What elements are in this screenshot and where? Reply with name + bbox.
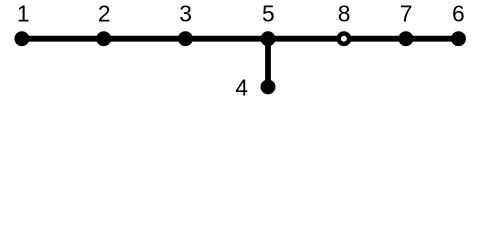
wire edge 5-4 bbox=[265, 39, 271, 87]
wire edge 8-7 bbox=[344, 36, 406, 42]
svg-text:8: 8 bbox=[338, 1, 351, 27]
svg-text:7: 7 bbox=[400, 1, 413, 27]
wire edge 3-5 bbox=[185, 36, 268, 42]
node 7 bbox=[398, 31, 413, 46]
node 8 (open) bbox=[339, 34, 349, 44]
wire edge 5-8 bbox=[268, 36, 344, 42]
svg-text:2: 2 bbox=[98, 1, 111, 27]
svg-text:6: 6 bbox=[452, 1, 465, 27]
svg-text:3: 3 bbox=[179, 1, 192, 27]
node 5 bbox=[261, 31, 276, 46]
node 2 bbox=[96, 31, 111, 46]
node 1 bbox=[14, 31, 29, 46]
node 6 bbox=[451, 31, 466, 46]
svg-text:4: 4 bbox=[235, 74, 248, 100]
wire edge 2-3 bbox=[104, 36, 186, 42]
svg-text:1: 1 bbox=[17, 1, 30, 27]
node 3 bbox=[178, 31, 193, 46]
svg-text:5: 5 bbox=[262, 1, 275, 27]
wire edge 7-6 bbox=[406, 36, 459, 42]
wire edge 1-2 bbox=[22, 36, 104, 42]
node 4 bbox=[261, 79, 276, 94]
